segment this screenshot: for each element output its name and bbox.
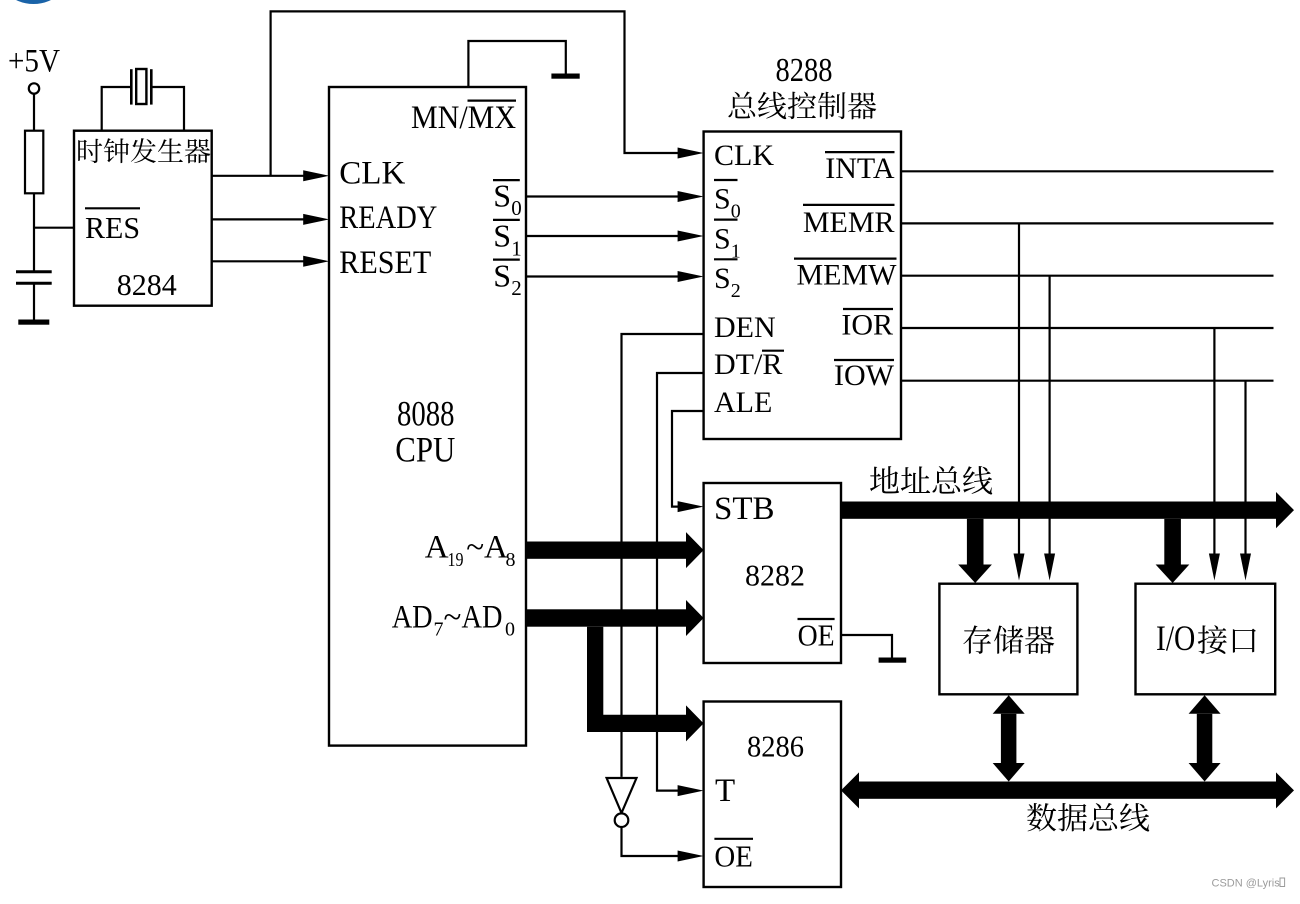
- svg-text:CSDN @Lyris: CSDN @Lyris: [1212, 878, 1281, 890]
- svg-text:ALE: ALE: [714, 386, 772, 419]
- label 存储器: [963, 625, 1054, 654]
- svg-text:IOW: IOW: [834, 359, 895, 392]
- svg-text:STB: STB: [714, 491, 775, 527]
- svg-text:S: S: [493, 257, 511, 293]
- pin DT/R overline: [762, 350, 784, 352]
- bus controller 8288 box: [704, 132, 901, 440]
- I/O box: [1136, 584, 1276, 695]
- wire CLK branch to 8288: [271, 11, 678, 175]
- capacitor C1: [16, 270, 52, 273]
- data bus link I/O: [1189, 695, 1221, 714]
- wire INTA output: [901, 170, 1274, 172]
- svg-text:CPU: CPU: [395, 430, 455, 470]
- pin IOR overline: [843, 308, 893, 310]
- wire S0: [526, 195, 678, 197]
- CPU 8088 box: [329, 87, 526, 746]
- pin S0 overline (CPU): [493, 179, 520, 181]
- address bus: [841, 502, 1276, 519]
- svg-text:+5V: +5V: [8, 44, 60, 80]
- wire ALE to 8282 STB: [672, 411, 704, 507]
- svg-text:8286: 8286: [747, 729, 804, 764]
- pin MN/MX overline: [468, 99, 517, 101]
- svg-text:8088: 8088: [397, 394, 455, 434]
- ground (power): [18, 320, 49, 325]
- svg-text:7: 7: [434, 619, 444, 641]
- pin S1 overline (8288): [714, 219, 738, 221]
- ground (8282 OE): [879, 658, 907, 663]
- svg-text:MEMW: MEMW: [797, 259, 898, 292]
- pin INTA overline: [825, 151, 895, 153]
- wire IOR output: [901, 327, 1274, 329]
- svg-text:CLK: CLK: [714, 139, 774, 172]
- svg-text:RESET: RESET: [339, 245, 431, 281]
- data bus link memory: [993, 695, 1025, 714]
- pin OE overline (8282): [798, 618, 835, 620]
- svg-text:2: 2: [511, 276, 522, 300]
- pin S2 overline (8288): [714, 258, 738, 260]
- svg-text:AD: AD: [462, 600, 503, 636]
- memory box: [939, 584, 1077, 695]
- bus A19~A8: [526, 542, 686, 559]
- pin MEMW overline: [794, 258, 897, 260]
- svg-text:2: 2: [731, 280, 741, 302]
- svg-text:~A: ~A: [466, 530, 508, 566]
- wire node to RES pin: [34, 227, 74, 229]
- address bus arrow to memory: [967, 519, 984, 565]
- wire OE to ground: [841, 635, 892, 658]
- svg-text:INTA: INTA: [825, 152, 895, 185]
- wire IOW output: [901, 380, 1274, 382]
- wire inverter to 8286 OE: [622, 827, 679, 856]
- crystal X1 wires: [102, 87, 132, 131]
- svg-text:DEN: DEN: [714, 311, 776, 344]
- svg-text:T: T: [715, 773, 735, 809]
- svg-text:19: 19: [448, 549, 464, 571]
- svg-text:8: 8: [506, 549, 516, 571]
- svg-text:0: 0: [511, 196, 522, 220]
- label 总线控制器: [728, 92, 876, 120]
- svg-text:~: ~: [444, 600, 462, 636]
- ground (MN/MX): [551, 74, 579, 79]
- wire MEMW output: [901, 275, 1274, 277]
- transceiver 8286 box: [704, 702, 841, 888]
- svg-text:S: S: [714, 222, 731, 255]
- pin S0 overline (8288): [714, 179, 738, 181]
- bus AD7~AD0: [526, 609, 686, 626]
- svg-text:8288: 8288: [776, 52, 833, 89]
- resistor R1: [25, 131, 43, 194]
- wire MN/MX to ground: [468, 41, 565, 87]
- address bus arrow to I/O: [1164, 519, 1181, 565]
- bus AD branch to 8286: [587, 627, 704, 742]
- svg-text:8282: 8282: [745, 557, 805, 592]
- wire MEMR down to memory: [1018, 223, 1020, 554]
- data bus: [859, 782, 1276, 799]
- svg-text:S: S: [714, 183, 731, 216]
- svg-text:OE: OE: [714, 839, 753, 874]
- svg-text:RES: RES: [85, 210, 140, 245]
- svg-text:READY: READY: [339, 200, 437, 236]
- inverter U5: [607, 778, 637, 813]
- wire MEMR output: [901, 222, 1274, 224]
- wire S2: [526, 275, 678, 277]
- wire DEN to inverter: [622, 334, 704, 777]
- wire resistor to capacitor: [33, 193, 35, 271]
- inverter bubble: [615, 813, 629, 827]
- latch 8282 box: [704, 483, 841, 663]
- wire RESET: [212, 260, 304, 262]
- wire S1: [526, 235, 678, 237]
- watermark logo arc: [0, 0, 74, 4]
- svg-text:DT/R: DT/R: [714, 348, 782, 381]
- svg-text:MN/MX: MN/MX: [411, 100, 516, 136]
- wire DT/R to 8286 T: [657, 373, 704, 791]
- svg-text:AD: AD: [392, 600, 433, 636]
- clock generator 8284 box: [74, 131, 212, 306]
- wire READY: [212, 218, 304, 220]
- pin RES overline: [85, 207, 140, 209]
- wire IOR down to I/O: [1213, 328, 1215, 554]
- svg-text:8284: 8284: [117, 267, 177, 302]
- pin MEMR overline: [803, 204, 895, 206]
- pin IOW overline: [834, 359, 894, 361]
- svg-text:S: S: [714, 262, 731, 295]
- crystal X1: [130, 69, 133, 104]
- svg-text:S: S: [493, 218, 511, 254]
- svg-text:CLK: CLK: [339, 156, 405, 192]
- svg-text:1: 1: [511, 236, 522, 260]
- label 接口: [1198, 625, 1256, 654]
- pin S1 overline (CPU): [493, 219, 520, 221]
- wire MEMW down to memory: [1048, 276, 1050, 554]
- svg-text:MEMR: MEMR: [803, 206, 895, 239]
- pin S2 overline (CPU): [493, 259, 520, 261]
- svg-text:S: S: [493, 177, 511, 213]
- wire terminal to resistor: [33, 94, 35, 131]
- pin OE overline (8286): [714, 838, 753, 840]
- wire IOW down to I/O: [1244, 381, 1246, 554]
- svg-text:IOR: IOR: [841, 308, 893, 341]
- label 地址总线: [870, 466, 992, 495]
- wire CLK 8284 to CPU: [212, 175, 304, 177]
- svg-text:OE: OE: [798, 618, 835, 653]
- svg-text:0: 0: [505, 619, 515, 641]
- +5V terminal: [29, 83, 39, 93]
- label 时钟发生器: [78, 138, 210, 163]
- wire capacitor to ground: [33, 283, 35, 319]
- label 数据总线: [1027, 803, 1149, 832]
- svg-text:A: A: [425, 530, 449, 566]
- svg-text:I/O: I/O: [1156, 618, 1195, 658]
